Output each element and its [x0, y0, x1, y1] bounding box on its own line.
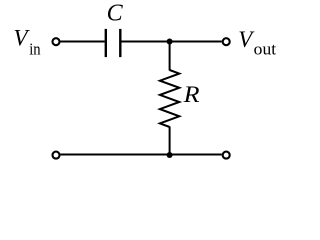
- capacitor C (right plate): [119, 29, 121, 57]
- svg-text:C: C: [107, 1, 124, 27]
- wire from capacitor right plate to Vout terminal: [121, 41, 221, 43]
- node Vout terminal (top-right open circle): [223, 38, 230, 45]
- junction dot (top node): [167, 39, 173, 45]
- capacitor C (left plate): [105, 29, 107, 57]
- svg-text:R: R: [182, 82, 199, 107]
- resistor R (zigzag): [160, 70, 179, 127]
- bottom wire (ground rail): [60, 154, 221, 156]
- svg-text:V: V: [14, 26, 31, 51]
- junction dot (bottom node): [167, 152, 173, 158]
- wire from Vin terminal to capacitor left plate: [60, 41, 104, 43]
- svg-text:out: out: [254, 40, 277, 59]
- wire from top node down to resistor: [169, 42, 171, 71]
- svg-text:in: in: [29, 40, 41, 59]
- node Vin terminal (top-left open circle): [53, 38, 60, 45]
- wire from resistor to bottom rail: [169, 127, 171, 155]
- svg-text:V: V: [238, 27, 255, 52]
- bottom-right terminal (open circle): [223, 152, 230, 159]
- bottom-left terminal (open circle): [53, 152, 60, 159]
